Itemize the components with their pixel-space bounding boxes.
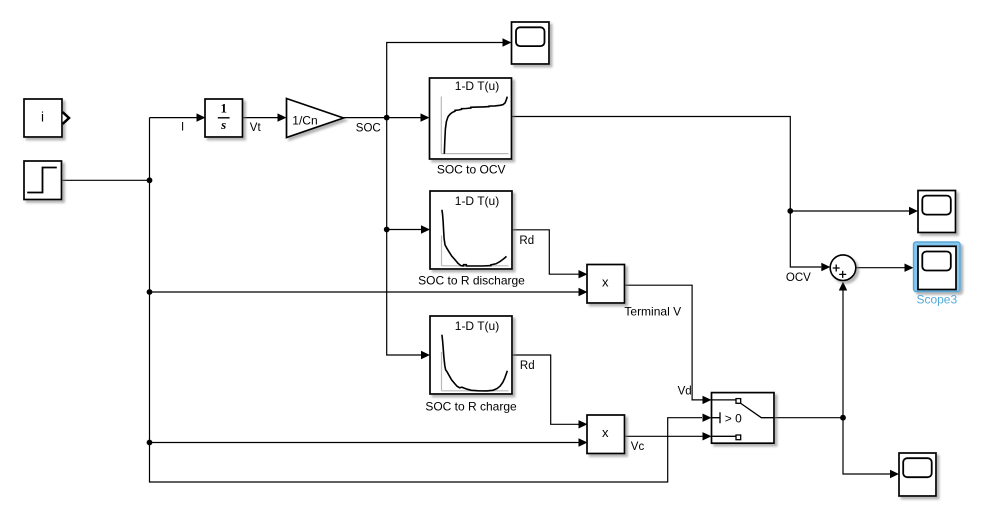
svg-text:SOC to OCV: SOC to OCV: [437, 163, 506, 177]
wire: switch output junction down to scope4 input: [843, 418, 899, 479]
svg-text:x: x: [602, 274, 609, 289]
label SOC to OCV: [437, 163, 506, 177]
svg-text:1/Cn: 1/Cn: [292, 113, 317, 127]
svg-text:Rd: Rd: [519, 235, 534, 247]
scope block 2 (OCV scope): [918, 191, 956, 233]
label OCV: [786, 272, 811, 284]
wire: SOC bus to lookup2 input: [387, 225, 430, 233]
product block 1 (x): [587, 265, 625, 304]
node: junction SOC at gain output row: [384, 115, 390, 121]
node: junction at switch output: [840, 415, 846, 421]
wire: product2 Vc output to switch input 3: [625, 432, 712, 440]
svg-text:Vd: Vd: [678, 385, 692, 397]
lookup table block SOC to OCV: [430, 78, 512, 159]
label SOC to R charge: [425, 399, 517, 413]
wire: gain output to lookup1 input (SOC net): [344, 113, 430, 121]
svg-text:> 0: > 0: [725, 411, 742, 425]
svg-text:1: 1: [220, 101, 227, 116]
wire: left bus to product1 lower input: [150, 288, 588, 296]
sum block (add): [830, 255, 856, 281]
wire: OCV junction to scope2 input: [790, 207, 918, 215]
wire: switch output to junction then up to sum bottom input: [774, 282, 847, 418]
svg-text:Scope3: Scope3: [916, 292, 957, 306]
svg-text:1-D T(u): 1-D T(u): [455, 319, 499, 333]
svg-text:OCV: OCV: [786, 272, 811, 284]
source block i (unconnected output port): [24, 99, 69, 137]
gain block 1/Cn: [287, 99, 344, 138]
node: junction on left bus row 442: [147, 440, 153, 446]
svg-text:I: I: [181, 121, 184, 133]
scope block Scope3 (selected, blue highlight): [914, 242, 961, 292]
node: junction at step output: [147, 177, 153, 183]
scope block (top, SOC scope): [512, 22, 550, 64]
label Rd upper: [519, 235, 534, 247]
label Rd lower: [520, 360, 535, 372]
integrator block 1/s: [205, 99, 243, 137]
node: junction SOC bus at lookup2 row: [384, 227, 390, 233]
wire: SOC vertical bus up to scope1 input: [387, 38, 512, 117]
label SOC to R discharge: [418, 274, 525, 288]
product block 2 (x): [587, 415, 625, 454]
svg-text:s: s: [220, 117, 226, 132]
node: junction on left bus row 292: [147, 289, 153, 295]
wire: lookup2 Rd output to product1 upper input: [512, 230, 588, 279]
svg-text:SOC to R charge: SOC to R charge: [425, 399, 517, 413]
wire: sum output to scope3 input: [856, 264, 914, 272]
svg-text:Vc: Vc: [631, 441, 645, 453]
wire: left junction up to integrator input: [150, 113, 206, 121]
label Terminal V: [624, 304, 681, 318]
svg-text:Rd: Rd: [520, 360, 535, 372]
label Vc: [631, 441, 645, 453]
switch block: [712, 393, 775, 444]
wire: left bus to product2 lower input: [150, 438, 588, 446]
wire: left vertical bus from integrator row down to bottom, then to switch control input: [150, 118, 712, 482]
svg-text:SOC to R discharge: SOC to R discharge: [418, 274, 525, 288]
step source block: [24, 161, 62, 200]
wire: lookup1 OCV output right then down to sum input: [512, 117, 831, 272]
label I on integrator input wire: [181, 121, 184, 133]
svg-text:Vt: Vt: [250, 122, 262, 134]
label Vt on integrator output wire: [250, 122, 262, 134]
svg-text:Terminal V: Terminal V: [624, 304, 681, 318]
wire: step source to left junction: [62, 179, 150, 181]
scope block 4 (bottom right): [899, 453, 936, 496]
svg-text:SOC: SOC: [356, 122, 381, 134]
svg-text:1-D T(u): 1-D T(u): [455, 194, 499, 208]
label Scope3: [916, 292, 957, 306]
svg-text:x: x: [602, 425, 609, 440]
wire: product1 Terminal V output down to switch input 1: [625, 285, 712, 404]
wire: lookup3 Rd output to product2 upper input: [512, 355, 588, 429]
wire: SOC vertical bus down to lookup3 input: [387, 118, 430, 360]
wire: integrator output to gain input: [243, 113, 287, 121]
lookup table block SOC to R discharge: [430, 191, 512, 269]
svg-text:i: i: [41, 109, 44, 124]
node: junction on OCV line: [787, 208, 793, 214]
lookup table block SOC to R charge: [430, 316, 512, 394]
label SOC on gain output wire: [356, 122, 381, 134]
label Vd: [678, 385, 692, 397]
svg-text:1-D T(u): 1-D T(u): [455, 79, 499, 93]
